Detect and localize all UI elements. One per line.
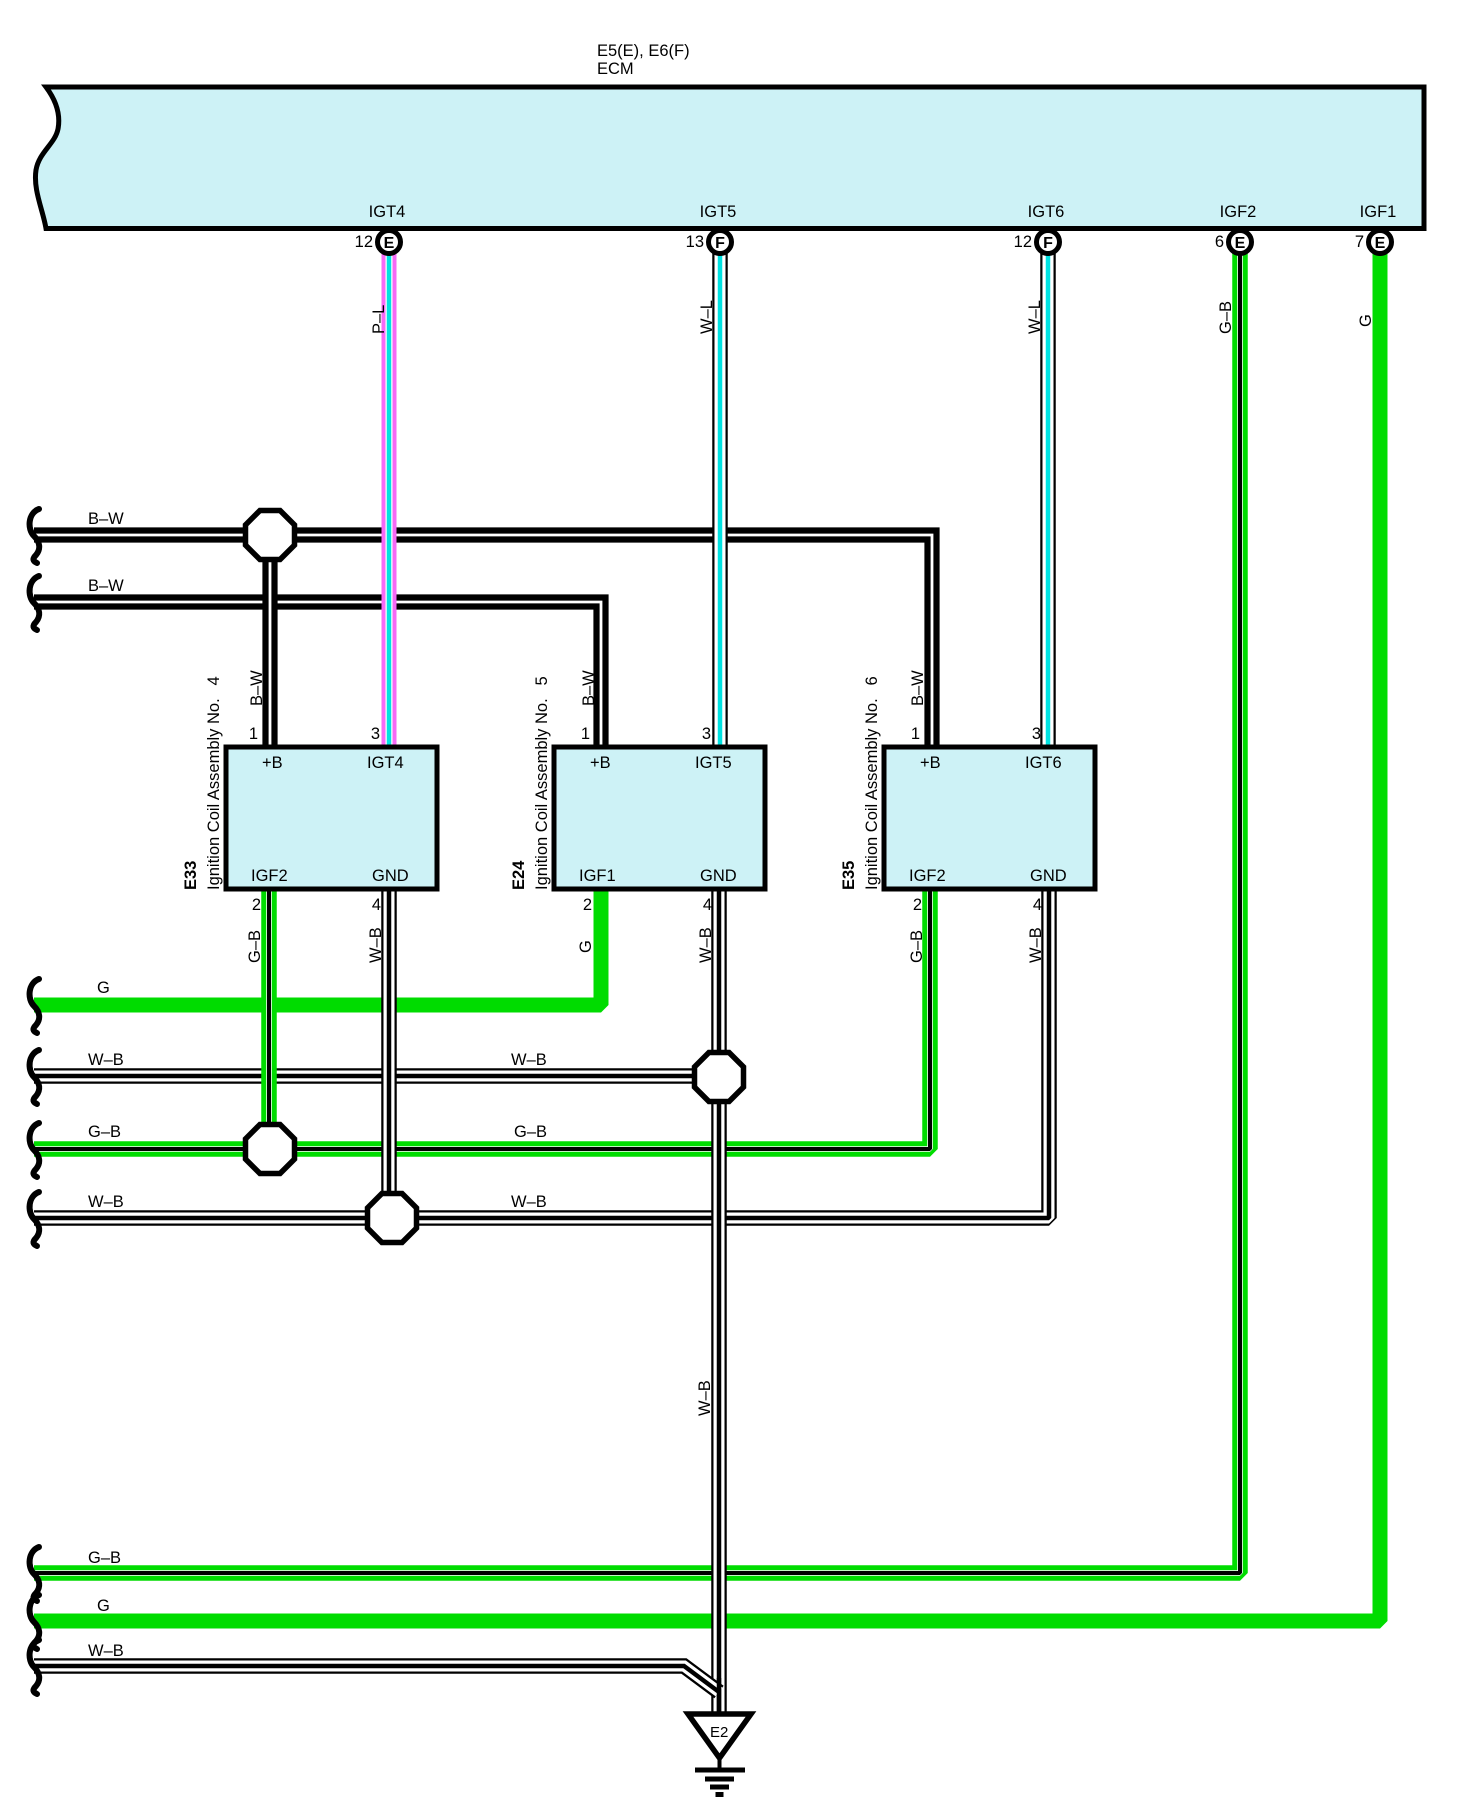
svg-text:W–L: W–L: [698, 300, 716, 334]
svg-text:IGT4: IGT4: [367, 754, 404, 772]
svg-text:IGT5: IGT5: [700, 203, 737, 221]
svg-text:2: 2: [913, 896, 922, 914]
svg-text:IGF1: IGF1: [579, 867, 616, 885]
svg-text:G–B: G–B: [908, 930, 926, 963]
svg-text:G: G: [1357, 314, 1375, 327]
svg-text:B–W: B–W: [88, 510, 124, 528]
svg-text:+B: +B: [920, 754, 941, 772]
svg-text:W–L: W–L: [1026, 300, 1044, 334]
svg-text:IGF2: IGF2: [1220, 203, 1257, 221]
svg-text:P–L: P–L: [370, 305, 388, 334]
svg-text:3: 3: [702, 725, 711, 743]
svg-text:GND: GND: [372, 867, 409, 885]
svg-text:E24: E24: [510, 860, 528, 890]
svg-text:G–B: G–B: [514, 1123, 547, 1141]
svg-text:E5(E), E6(F): E5(E), E6(F): [597, 42, 690, 60]
svg-text:G–B: G–B: [246, 930, 264, 963]
svg-text:G: G: [97, 979, 110, 997]
svg-text:B–W: B–W: [248, 670, 266, 706]
svg-text:IGT5: IGT5: [695, 754, 732, 772]
svg-text:E: E: [1375, 235, 1386, 252]
svg-text:W–B: W–B: [88, 1642, 124, 1660]
svg-text:Ignition Coil Assembly No. 6: Ignition Coil Assembly No. 6: [863, 676, 881, 890]
svg-text:12: 12: [355, 233, 373, 251]
svg-text:1: 1: [249, 725, 258, 743]
svg-text:GND: GND: [1030, 867, 1067, 885]
svg-text:B–W: B–W: [909, 670, 927, 706]
svg-text:IGF2: IGF2: [909, 867, 946, 885]
svg-text:W–B: W–B: [511, 1051, 547, 1069]
svg-text:1: 1: [581, 725, 590, 743]
svg-text:1: 1: [911, 725, 920, 743]
svg-text:13: 13: [686, 233, 704, 251]
svg-text:4: 4: [372, 896, 381, 914]
svg-text:B–W: B–W: [88, 577, 124, 595]
svg-text:2: 2: [583, 896, 592, 914]
svg-text:GND: GND: [700, 867, 737, 885]
svg-text:3: 3: [371, 725, 380, 743]
svg-text:E: E: [384, 235, 395, 252]
svg-text:Ignition Coil Assembly No. 5: Ignition Coil Assembly No. 5: [533, 676, 551, 890]
svg-text:7: 7: [1355, 233, 1364, 251]
svg-text:W–B: W–B: [511, 1193, 547, 1211]
svg-text:B–W: B–W: [580, 670, 598, 706]
svg-text:G: G: [577, 940, 595, 953]
svg-text:ECM: ECM: [597, 60, 634, 78]
svg-text:F: F: [1043, 235, 1053, 252]
svg-text:G–B: G–B: [1217, 301, 1235, 334]
svg-text:2: 2: [252, 896, 261, 914]
svg-text:G–B: G–B: [88, 1549, 121, 1567]
svg-text:W–B: W–B: [696, 1380, 714, 1416]
svg-text:E2: E2: [710, 1724, 728, 1741]
svg-text:E35: E35: [840, 861, 858, 890]
svg-text:W–B: W–B: [88, 1051, 124, 1069]
svg-text:E33: E33: [182, 861, 200, 890]
svg-text:4: 4: [703, 896, 712, 914]
svg-text:W–B: W–B: [88, 1193, 124, 1211]
svg-text:+B: +B: [590, 754, 611, 772]
svg-text:4: 4: [1033, 896, 1042, 914]
svg-text:12: 12: [1014, 233, 1032, 251]
svg-text:IGT6: IGT6: [1025, 754, 1062, 772]
svg-text:G: G: [97, 1597, 110, 1615]
svg-text:IGT4: IGT4: [369, 203, 406, 221]
svg-text:W–B: W–B: [1027, 927, 1045, 963]
svg-text:3: 3: [1032, 725, 1041, 743]
svg-text:IGT6: IGT6: [1028, 203, 1065, 221]
svg-text:W–B: W–B: [697, 927, 715, 963]
svg-text:W–B: W–B: [367, 927, 385, 963]
svg-text:Ignition Coil Assembly No. 4: Ignition Coil Assembly No. 4: [205, 676, 223, 890]
svg-text:6: 6: [1215, 233, 1224, 251]
svg-text:F: F: [715, 235, 725, 252]
svg-text:+B: +B: [262, 754, 283, 772]
svg-text:IGF2: IGF2: [251, 867, 288, 885]
svg-text:IGF1: IGF1: [1360, 203, 1397, 221]
svg-text:E: E: [1235, 235, 1246, 252]
svg-text:G–B: G–B: [88, 1123, 121, 1141]
